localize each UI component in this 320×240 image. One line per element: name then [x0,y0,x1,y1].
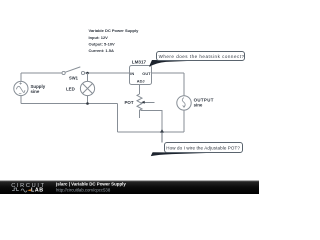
wire step-down from left rail [116,104,118,133]
voltage source V1 (Supply sine) [14,81,28,95]
label OUTPUT sine [194,97,214,107]
svg-text:Supply: Supply [31,84,46,89]
wire left vertical to V1 top [20,73,22,81]
svg-text:POT: POT [125,100,134,105]
wire V1 bottom [20,96,22,104]
svg-text:OUT: OUT [142,71,151,76]
svg-text:Where does the heatsink connec: Where does the heatsink connect? [159,54,245,59]
svg-text:Current: 1.5A: Current: 1.5A [89,48,114,53]
junction node at SW1 output [86,72,89,75]
svg-text:sine: sine [194,102,203,107]
wire LM317 OUT to output branch [152,72,185,74]
svg-text:Output: 5-10V: Output: 5-10V [89,41,116,46]
POT bottom lead stub [139,110,141,118]
svg-text:ADJ: ADJ [137,79,145,84]
wire LED bottom [87,96,89,104]
switch SW1 [62,67,85,75]
wire LM317 ADJ down to POT [139,84,141,94]
annotation text block [89,28,140,53]
svg-text:How do I wire the Adjustable P: How do I wire the Adjustable POT? [166,145,240,150]
wire top rail from V1 to SW1 [21,72,62,74]
wire output branch vertical [183,73,185,96]
POT wiper arrow [141,101,154,104]
wire junction down to LED [87,73,89,81]
footer bar [0,181,259,195]
svg-text:http://circuitlab.com/cpcc538: http://circuitlab.com/cpcc538 [56,188,111,193]
svg-text:LED: LED [66,87,75,92]
wire bottom rail [117,131,184,133]
potentiometer POT zigzag [137,94,142,110]
callout: How do I wire the Adjustable POT? [151,129,243,156]
svg-text:IN: IN [130,71,134,76]
regulator U1 LM317 body [130,66,152,85]
svg-text:jslarc | Variable DC Power Sup: jslarc | Variable DC Power Supply [55,182,126,187]
junction node at LED bottom [86,102,89,105]
callout: Where does the heatsink connect? [149,52,245,67]
svg-text:Input: 12V: Input: 12V [89,35,109,40]
svg-text:LAB: LAB [31,188,44,194]
svg-text:LM317: LM317 [132,59,147,64]
lamp LED [80,81,94,95]
svg-text:SW1: SW1 [69,76,79,81]
wire OUTPUT bottom to rail [183,110,185,132]
wire bottom-left rail [21,103,117,105]
svg-text:Variable DC Power Supply: Variable DC Power Supply [89,28,140,33]
wire POT bottom to lower rail [141,110,163,132]
wire SW1 to LM317 IN [85,72,129,74]
svg-text:sine: sine [31,89,40,94]
source OUTPUT sine [177,96,191,110]
label Supply sine [31,84,46,94]
